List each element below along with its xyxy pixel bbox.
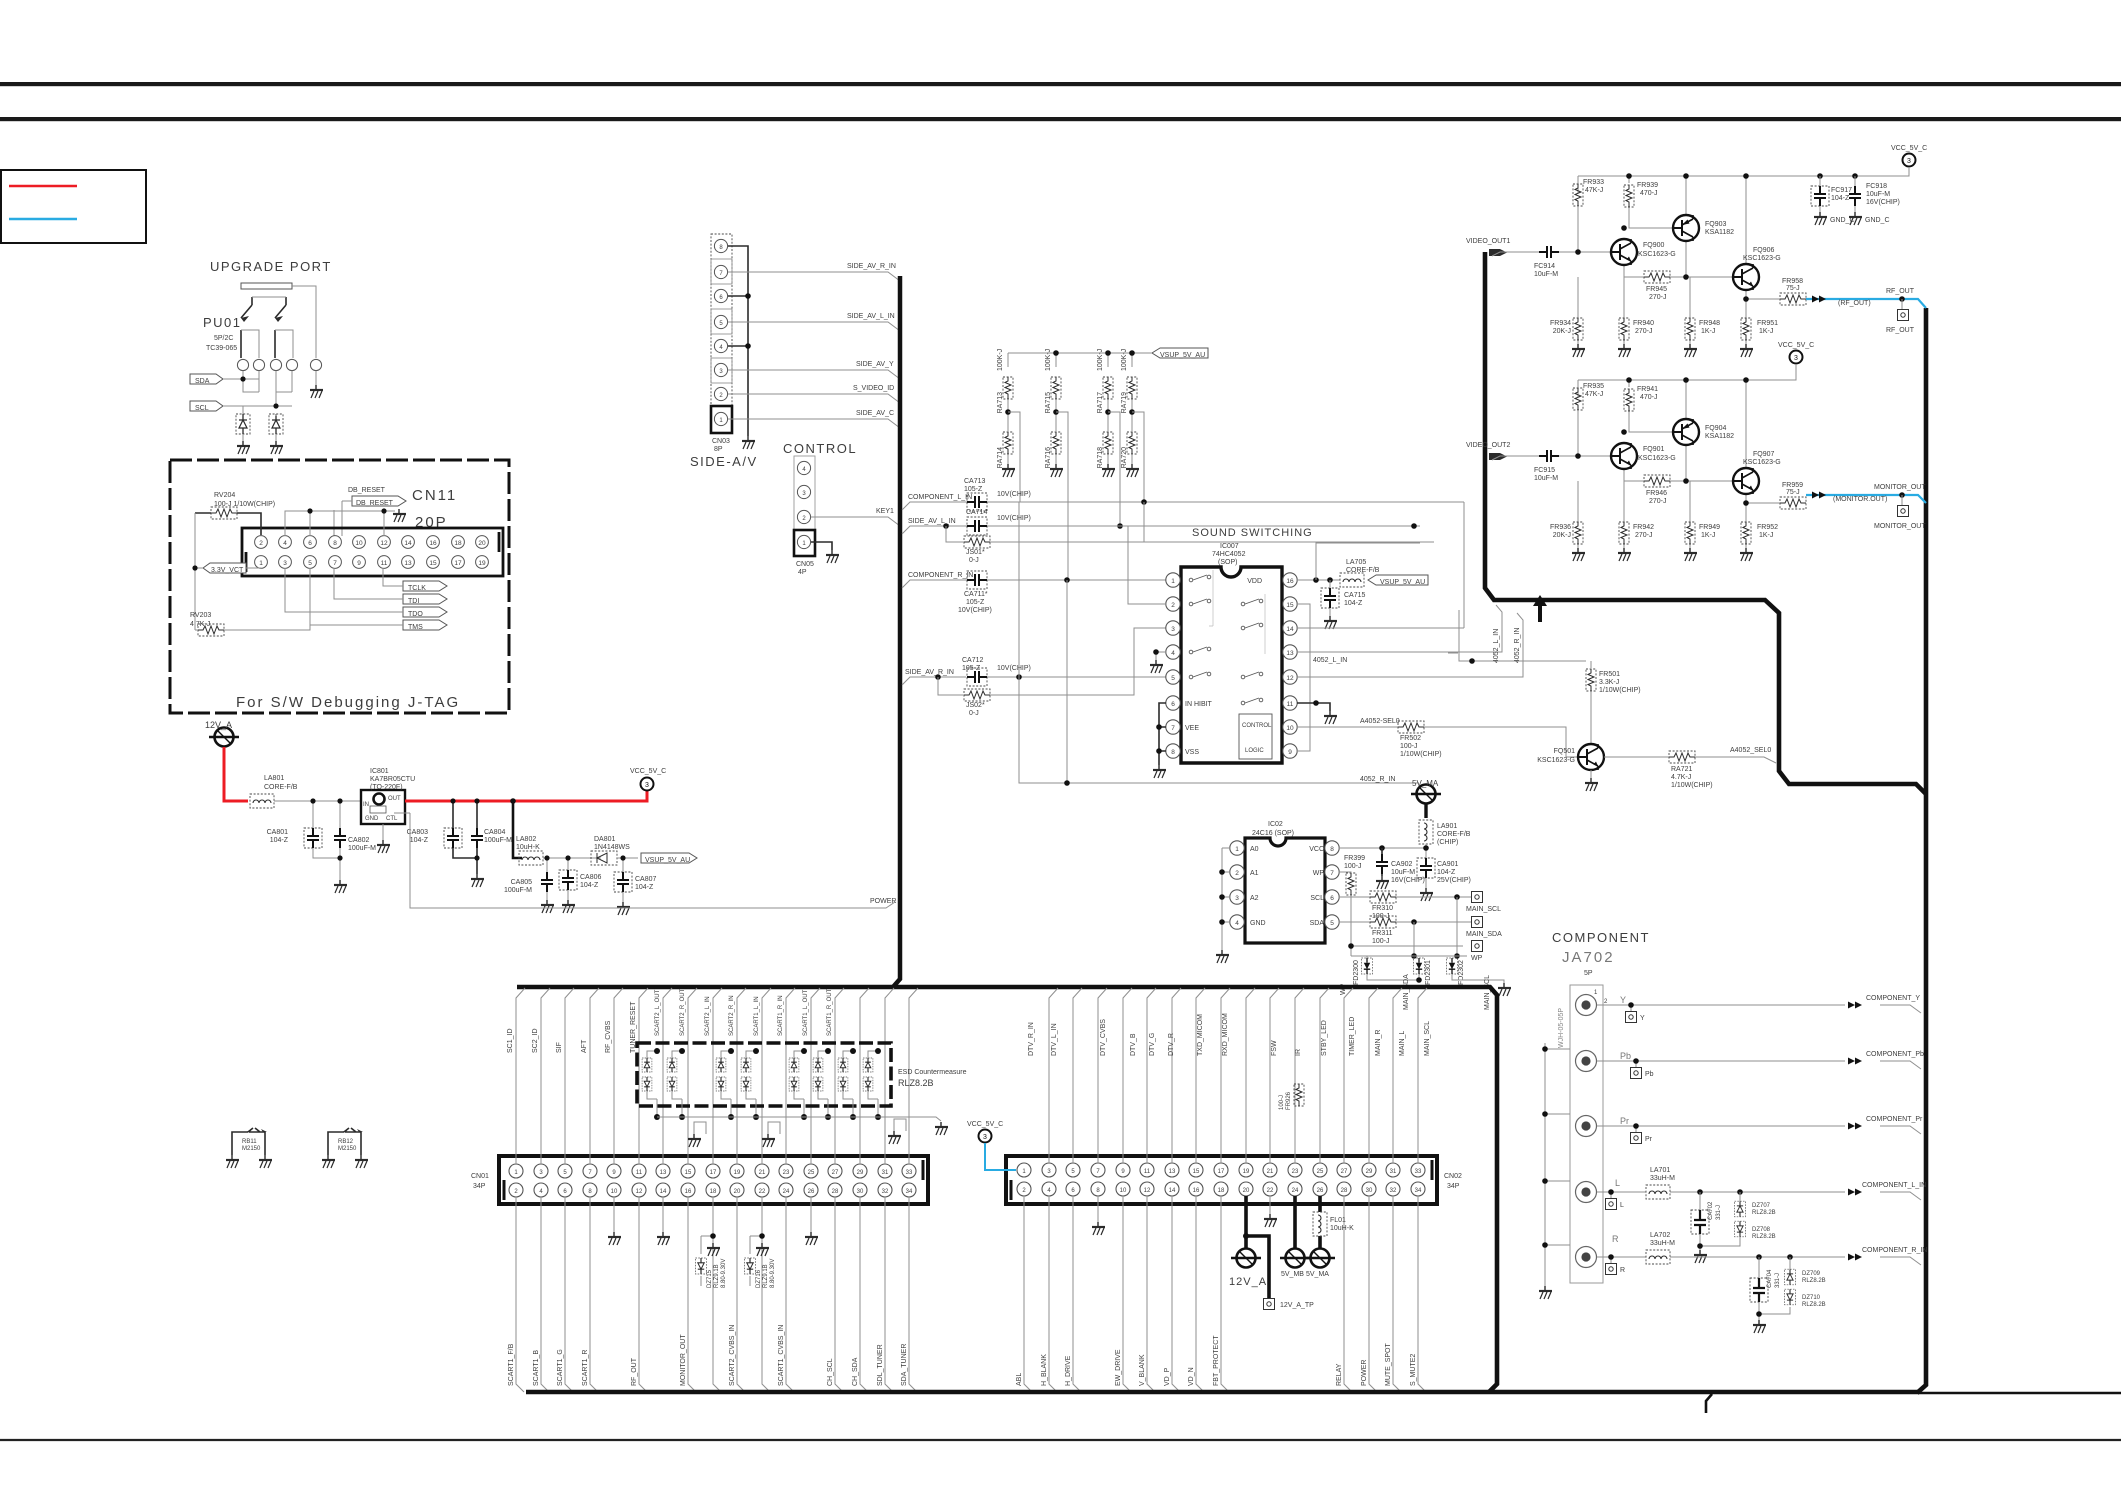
wire (1492, 380, 1780, 548)
ground (1618, 548, 1631, 561)
svg-text:9: 9 (1288, 749, 1292, 756)
svg-text:100-J: 100-J (1279, 1095, 1285, 1110)
svg-text:CORE-F/B: CORE-F/B (1346, 567, 1380, 574)
resistor RV204 (211, 507, 237, 519)
wire 3.3V (195, 568, 261, 623)
svg-text:20: 20 (734, 1189, 741, 1195)
svg-text:VCC: VCC (1309, 846, 1324, 853)
svg-text:DTV_CVBS: DTV_CVBS (1100, 1019, 1107, 1056)
svg-text:5P: 5P (1584, 970, 1593, 977)
wire pin8 gnd (1097, 1196, 1099, 1222)
svg-text:COMPONENT_Y: COMPONENT_Y (1866, 995, 1920, 1002)
connector CN02 34P body (1006, 1156, 1437, 1204)
svg-text:2: 2 (1604, 999, 1608, 1005)
flag VSUP_5V_AU (641, 853, 697, 864)
switch contact 1 (241, 297, 252, 358)
CN01 pins even row (509, 1183, 916, 1197)
transistor FQ501 KSC1623 (1578, 744, 1604, 770)
svg-text:CN11: CN11 (412, 487, 457, 504)
wire stub gnd A (694, 1122, 706, 1134)
node MONITOR_OUT (1899, 492, 1905, 498)
svg-text:FD2302: FD2302 (1458, 960, 1465, 985)
svg-text:DZ716: DZ716 (756, 1269, 762, 1288)
svg-text:100-J: 100-J (1344, 863, 1362, 870)
diode DZ715 RLZ9.1B (701, 1236, 713, 1254)
svg-text:RA718: RA718 (1097, 447, 1104, 469)
inductor LA901 (1419, 820, 1433, 844)
svg-text:270-J: 270-J (1635, 328, 1653, 335)
svg-text:FR311: FR311 (1372, 930, 1393, 937)
wire SCL (223, 371, 292, 406)
svg-text:0-J: 0-J (969, 557, 979, 564)
svg-text:FR399: FR399 (1344, 855, 1365, 862)
wire RV203 (195, 568, 310, 630)
diode DZ720 (667, 1077, 677, 1091)
svg-text:FR310: FR310 (1372, 905, 1393, 912)
svg-text:104-Z: 104-Z (1831, 195, 1850, 202)
svg-text:IC02: IC02 (1268, 821, 1283, 828)
capacitor CA713 (967, 493, 987, 511)
transistor FQ906 KSC1623-G (1733, 264, 1759, 290)
CN03 pins (714, 239, 727, 425)
bus horizontal main (517, 987, 1497, 1392)
svg-text:12: 12 (380, 540, 388, 547)
svg-text:POWER: POWER (870, 898, 896, 905)
svg-text:5V_MA: 5V_MA (1306, 1271, 1329, 1278)
svg-text:8.80-9.30V: 8.80-9.30V (770, 1259, 776, 1288)
svg-text:32: 32 (882, 1189, 889, 1195)
CN02 pins odd row (1017, 1163, 1425, 1177)
spark gap RB12 M2150 (328, 1128, 361, 1155)
wire (818, 1051, 828, 1117)
svg-text:31: 31 (882, 1170, 889, 1176)
svg-text:S_MUTE2: S_MUTE2 (1410, 1354, 1417, 1386)
svg-text:LA702: LA702 (1650, 1232, 1670, 1239)
svg-text:6: 6 (308, 540, 312, 547)
wire (794, 1051, 804, 1117)
svg-text:S_VIDEO_ID: S_VIDEO_ID (853, 385, 894, 392)
blue wire RF_OUT (1806, 299, 1926, 308)
inductor LA705 (1340, 573, 1364, 587)
svg-text:15: 15 (685, 1170, 692, 1176)
svg-text:RA716: RA716 (1045, 447, 1052, 469)
svg-text:L: L (1615, 1178, 1620, 1188)
svg-text:7: 7 (1171, 725, 1175, 732)
wire WP pin7 (1339, 872, 1463, 946)
svg-text:21: 21 (1267, 1169, 1274, 1175)
svg-text:16: 16 (429, 540, 437, 547)
svg-text:14: 14 (404, 540, 412, 547)
svg-text:TXD_MICOM: TXD_MICOM (1197, 1014, 1204, 1056)
legend red line (9, 185, 77, 187)
svg-text:LA705: LA705 (1346, 559, 1366, 566)
svg-text:104-Z: 104-Z (1437, 869, 1456, 876)
svg-text:FQ904: FQ904 (1705, 425, 1727, 432)
svg-text:CN03: CN03 (712, 438, 730, 445)
capacitor CA807 (614, 872, 632, 892)
svg-text:FQ901: FQ901 (1643, 446, 1665, 453)
wire FR501-FQ501 (1590, 691, 1592, 744)
wire pin15-9 (1297, 604, 1310, 751)
red wire 12V_A (224, 747, 248, 801)
svg-text:16: 16 (685, 1189, 692, 1195)
resistor FR951 1K-J (1741, 318, 1751, 340)
wire (1492, 176, 1780, 344)
svg-text:5P/2C: 5P/2C (214, 335, 233, 342)
svg-text:11: 11 (1144, 1169, 1151, 1175)
pad WP (1472, 941, 1483, 952)
svg-text:10V(CHIP): 10V(CHIP) (997, 665, 1031, 672)
wire RV204 net (195, 513, 261, 535)
svg-text:0-J: 0-J (969, 710, 979, 717)
svg-text:16: 16 (1193, 1188, 1200, 1194)
svg-text:75-J: 75-J (1786, 489, 1800, 496)
flag VSUP_5V_AU (1152, 348, 1208, 359)
IC007 right pins (1283, 573, 1297, 758)
svg-text:VIDEO_OUT2: VIDEO_OUT2 (1466, 442, 1510, 449)
capacitor CA704 331-J (1750, 1278, 1768, 1302)
svg-text:100K-J: 100K-J (1121, 349, 1128, 371)
svg-text:RLZ8.2B: RLZ8.2B (1802, 1278, 1826, 1284)
svg-text:FQ903: FQ903 (1705, 221, 1727, 228)
wire stub gnd C (894, 1119, 906, 1131)
svg-text:19: 19 (734, 1170, 741, 1176)
ground near pin12 (393, 509, 406, 522)
power 5V_MA (1305, 1249, 1335, 1268)
CN01 bottom wires (516, 1197, 917, 1392)
wire (662, 1197, 664, 1232)
connector JA702 body (1570, 985, 1603, 1283)
svg-text:FR945: FR945 (1646, 286, 1667, 293)
diode DZ723 (741, 1058, 751, 1072)
resistor FR940 270-J (1619, 318, 1629, 340)
resistor FR958 75-J (1780, 293, 1806, 305)
ground (1753, 1320, 1766, 1333)
pad Pb (1631, 1068, 1642, 1079)
svg-text:LA701: LA701 (1650, 1167, 1670, 1174)
diode FD2301 (1413, 958, 1424, 974)
CN02 pins even row (1017, 1182, 1425, 1196)
svg-text:MAIN_R: MAIN_R (1375, 1030, 1382, 1056)
svg-text:TDO: TDO (408, 611, 423, 618)
svg-text:KSA1182: KSA1182 (1705, 229, 1734, 236)
svg-text:4052_R_IN: 4052_R_IN (1514, 628, 1521, 663)
svg-text:8: 8 (1171, 749, 1175, 756)
top border bar 1 (0, 82, 2121, 86)
svg-text:270-J: 270-J (1635, 532, 1653, 539)
ground (1618, 344, 1631, 357)
capacitor FC914 10uF-M (1539, 246, 1559, 258)
svg-text:100K-J: 100K-J (1045, 349, 1052, 371)
svg-text:10uH-K: 10uH-K (516, 844, 540, 851)
svg-text:SIDE-A/V: SIDE-A/V (690, 454, 758, 469)
transistor FQ907 KSC1623-G (1733, 468, 1759, 494)
ground (805, 1232, 818, 1245)
svg-text:PU01: PU01 (203, 315, 242, 330)
svg-text:34: 34 (906, 1189, 913, 1195)
svg-text:IC007: IC007 (1220, 543, 1239, 550)
op IC007 body (1181, 567, 1282, 763)
svg-text:1K-J: 1K-J (1759, 532, 1773, 539)
svg-text:CA806: CA806 (580, 874, 602, 881)
ground (1498, 983, 1511, 996)
wire SIDE_AV_L_IN (902, 526, 1420, 534)
svg-text:12V_A: 12V_A (1229, 1276, 1267, 1288)
wire (672, 1051, 682, 1117)
ground (1572, 344, 1585, 357)
connector CN03 SIDE-A/V (711, 234, 732, 433)
ground (310, 385, 323, 398)
connector CN05 (794, 456, 815, 556)
wire TMS from pin5 (310, 568, 403, 630)
svg-text:FR933: FR933 (1583, 179, 1604, 186)
svg-text:CN01: CN01 (471, 1173, 489, 1180)
vcc symbol VCC_5V_C (979, 1130, 992, 1143)
svg-text:KEY1: KEY1 (876, 508, 894, 515)
svg-text:CA713: CA713 (964, 478, 986, 485)
svg-text:RA713: RA713 (997, 392, 1004, 414)
resistor FR926 100-J (1294, 1084, 1304, 1106)
RF block border right vertical (1917, 308, 1926, 1393)
wire (241, 297, 293, 358)
svg-text:20: 20 (478, 540, 486, 547)
svg-text:SDA: SDA (1310, 920, 1325, 927)
svg-text:11: 11 (381, 560, 388, 567)
svg-text:MAIN_SDA: MAIN_SDA (1403, 974, 1410, 1010)
svg-text:FQ900: FQ900 (1643, 242, 1665, 249)
wire after LA802 (543, 858, 601, 900)
svg-text:GND: GND (365, 816, 379, 822)
svg-text:5: 5 (1171, 675, 1175, 682)
svg-text:470-J: 470-J (1640, 190, 1658, 197)
svg-text:4052_L_IN: 4052_L_IN (1493, 629, 1500, 663)
svg-text:33uH-M: 33uH-M (1650, 1240, 1675, 1247)
svg-text:FR935: FR935 (1583, 383, 1604, 390)
capacitor FC917 104-Z (1811, 186, 1829, 206)
vcc symbol VCC_5V_C stage1 (1903, 154, 1916, 167)
wire 4052_R_IN bottom (1019, 677, 1419, 783)
svg-text:IN HIBIT: IN HIBIT (1185, 701, 1213, 708)
svg-text:FR946: FR946 (1646, 490, 1667, 497)
wire CN05 gnd (811, 542, 832, 550)
svg-text:TCLK: TCLK (408, 585, 426, 592)
ground wire pin8/6/4 (728, 246, 748, 436)
capacitor CA702 331-J (1691, 1210, 1709, 1234)
svg-text:RELAY: RELAY (1336, 1363, 1343, 1386)
svg-text:A0: A0 (1250, 846, 1259, 853)
pad R (1606, 1264, 1617, 1275)
svg-text:(CHIP): (CHIP) (1437, 839, 1458, 846)
svg-text:RA719: RA719 (1121, 392, 1128, 414)
svg-text:12V_A: 12V_A (205, 720, 232, 730)
flag TDO (403, 607, 447, 618)
svg-text:IN: IN (363, 802, 369, 808)
svg-text:SCART1_L_IN: SCART1_L_IN (754, 996, 760, 1036)
svg-text:6: 6 (1330, 895, 1334, 902)
wire FL01 (1318, 1196, 1322, 1248)
resistor JS02 (964, 689, 990, 701)
transistor FQ900 KSC1623-G (1611, 239, 1637, 265)
arrow MONITOR_OUT (1812, 492, 1826, 499)
ground (1216, 950, 1229, 963)
svg-text:LA802: LA802 (516, 836, 536, 843)
svg-text:DTV_R_IN: DTV_R_IN (1028, 1022, 1035, 1056)
wire S_VIDEO_ID (728, 394, 900, 403)
svg-text:100-J: 100-J (1372, 938, 1390, 945)
svg-text:SCL: SCL (195, 405, 209, 412)
svg-text:SIDE_AV_L_IN: SIDE_AV_L_IN (908, 518, 956, 525)
legend blue line (9, 218, 77, 220)
svg-text:RLZ8.2B: RLZ8.2B (1752, 1234, 1776, 1240)
CN02 top wires (1049, 988, 1427, 1163)
svg-text:RF_OUT: RF_OUT (1886, 327, 1915, 334)
svg-text:1: 1 (1171, 578, 1175, 585)
svg-text:RB11: RB11 (242, 1139, 257, 1145)
svg-text:KSC1623-G: KSC1623-G (1537, 757, 1575, 764)
diode DZ730 (838, 1077, 848, 1091)
svg-text:FQ501: FQ501 (1554, 748, 1576, 755)
blue wire MONITOR_OUT (1806, 495, 1926, 503)
legend box (1, 170, 146, 243)
wire ESD bottom rail (657, 1117, 941, 1121)
capacitor FC915 10uF-M (1539, 450, 1559, 462)
wire (810, 1197, 812, 1232)
wire after DA801 (617, 858, 638, 902)
svg-text:17: 17 (710, 1170, 717, 1176)
wire COMPONENT_R_IN (1597, 1257, 1921, 1265)
svg-text:DB_RESET: DB_RESET (348, 487, 386, 494)
arrow COMPONENT_R_IN (1848, 1254, 1862, 1261)
svg-text:WJH-05-05P: WJH-05-05P (1558, 1008, 1565, 1048)
capacitor CA715 (1321, 588, 1339, 608)
wire diode bottoms (1351, 956, 1504, 983)
flag TDI (403, 594, 447, 605)
svg-text:ESD Countermeasure: ESD Countermeasure (898, 1069, 967, 1076)
svg-text:Pb: Pb (1620, 1051, 1631, 1061)
capacitor CA711 (967, 571, 987, 589)
svg-text:13: 13 (1286, 650, 1294, 657)
svg-text:100K-J: 100K-J (997, 349, 1004, 371)
svg-text:VSUP_5V_AU: VSUP_5V_AU (645, 857, 690, 864)
svg-text:FC915: FC915 (1534, 467, 1555, 474)
pad MAIN_SCL (1472, 892, 1483, 903)
svg-text:FR934: FR934 (1550, 320, 1571, 327)
svg-text:10uF-M: 10uF-M (1534, 475, 1558, 482)
ground (1684, 548, 1697, 561)
svg-text:MAIN_SDA: MAIN_SDA (1466, 931, 1502, 938)
svg-text:24C16 (SOP): 24C16 (SOP) (1252, 830, 1294, 837)
wire (647, 1051, 657, 1117)
svg-text:CA802: CA802 (348, 837, 370, 844)
wire COMPONENT_L_IN (902, 502, 1464, 510)
wire stub gnd B (768, 1122, 780, 1134)
svg-text:POWER: POWER (1361, 1360, 1368, 1386)
vertical mid wires (1019, 502, 1144, 783)
svg-text:COMPONENT_L_IN: COMPONENT_L_IN (1862, 1182, 1926, 1189)
svg-text:100-J: 100-J (1372, 913, 1390, 920)
svg-text:FR942: FR942 (1633, 524, 1654, 531)
svg-text:100-J 1/10W(CHIP): 100-J 1/10W(CHIP) (214, 501, 275, 508)
RF block border left/bottom (1485, 252, 1926, 794)
svg-text:R: R (1612, 1234, 1619, 1244)
diode DZ731 (863, 1058, 873, 1072)
svg-text:A1: A1 (1250, 870, 1259, 877)
svg-text:FC914: FC914 (1534, 263, 1555, 270)
CN02 bottom wires (1024, 1196, 1426, 1392)
svg-text:1/10W(CHIP): 1/10W(CHIP) (1400, 751, 1442, 758)
wire COMPONENT_Pr (1597, 1126, 1921, 1134)
bottom border thin line (0, 1439, 2121, 1441)
svg-text:26: 26 (808, 1189, 815, 1195)
svg-text:26: 26 (1317, 1188, 1324, 1194)
svg-text:RV203: RV203 (190, 612, 211, 619)
wire (843, 1051, 853, 1117)
ground (541, 900, 554, 913)
svg-text:COMPONENT_R_IN: COMPONENT_R_IN (908, 572, 973, 579)
spark gap RB11 M2150 (232, 1128, 265, 1155)
rail wire stage2 (1578, 364, 1796, 380)
svg-text:47K-J: 47K-J (1585, 391, 1603, 398)
capacitor CA805 (541, 872, 553, 892)
svg-text:SCART2_L_OUT: SCART2_L_OUT (655, 989, 661, 1036)
capacitor FC918 10uF-M (1849, 186, 1861, 206)
wire JS02 (938, 628, 1166, 695)
svg-text:CORE-F/B: CORE-F/B (264, 784, 298, 791)
svg-text:1K-J: 1K-J (1759, 328, 1773, 335)
wire pin6/7/8 (1159, 703, 1166, 765)
svg-text:FQ907: FQ907 (1753, 451, 1775, 458)
wire 4052 outputs (1448, 610, 1591, 668)
svg-text:25: 25 (1317, 1169, 1324, 1175)
svg-text:SIDE_AV_R_IN: SIDE_AV_R_IN (905, 669, 954, 676)
wire pin16 VDD (1297, 579, 1340, 581)
ground (237, 441, 250, 454)
diode DA801 (591, 851, 617, 865)
capacitor CA803 (444, 828, 462, 848)
svg-text:FR936: FR936 (1550, 524, 1571, 531)
svg-text:SIDE_AV_Y: SIDE_AV_Y (856, 361, 894, 368)
svg-text:DZ715: DZ715 (707, 1269, 713, 1288)
svg-text:18: 18 (710, 1189, 717, 1195)
connector PU01 body (241, 283, 292, 289)
CN01 top wires (516, 988, 918, 1164)
capacitor CA714 (967, 517, 987, 535)
wire R filters (1759, 1257, 1790, 1320)
svg-text:1: 1 (1235, 846, 1239, 853)
svg-text:FR958: FR958 (1782, 278, 1803, 285)
svg-text:104-Z: 104-Z (410, 837, 429, 844)
svg-text:28: 28 (1341, 1188, 1348, 1194)
svg-text:22: 22 (1267, 1188, 1274, 1194)
J-TAG box (170, 460, 509, 713)
svg-text:105-Z: 105-Z (964, 486, 983, 493)
svg-text:4P: 4P (798, 569, 807, 576)
svg-text:M2150: M2150 (242, 1146, 261, 1152)
wire 5V_MB (1293, 1196, 1297, 1248)
svg-text:TMS: TMS (408, 624, 423, 631)
svg-text:8: 8 (1330, 846, 1334, 853)
svg-text:9: 9 (357, 560, 361, 567)
svg-text:AFT: AFT (581, 1039, 588, 1053)
red wire VCC_5V_C (405, 791, 647, 801)
regulator IC801 (361, 790, 405, 824)
flag SCL (190, 401, 223, 412)
svg-text:FR949: FR949 (1699, 524, 1720, 531)
svg-text:DZ708: DZ708 (1752, 1227, 1771, 1233)
svg-text:33uH-M: 33uH-M (1650, 1175, 1675, 1182)
diode DZ724 (741, 1077, 751, 1091)
svg-text:MONITOR_OUT: MONITOR_OUT (1874, 523, 1926, 530)
